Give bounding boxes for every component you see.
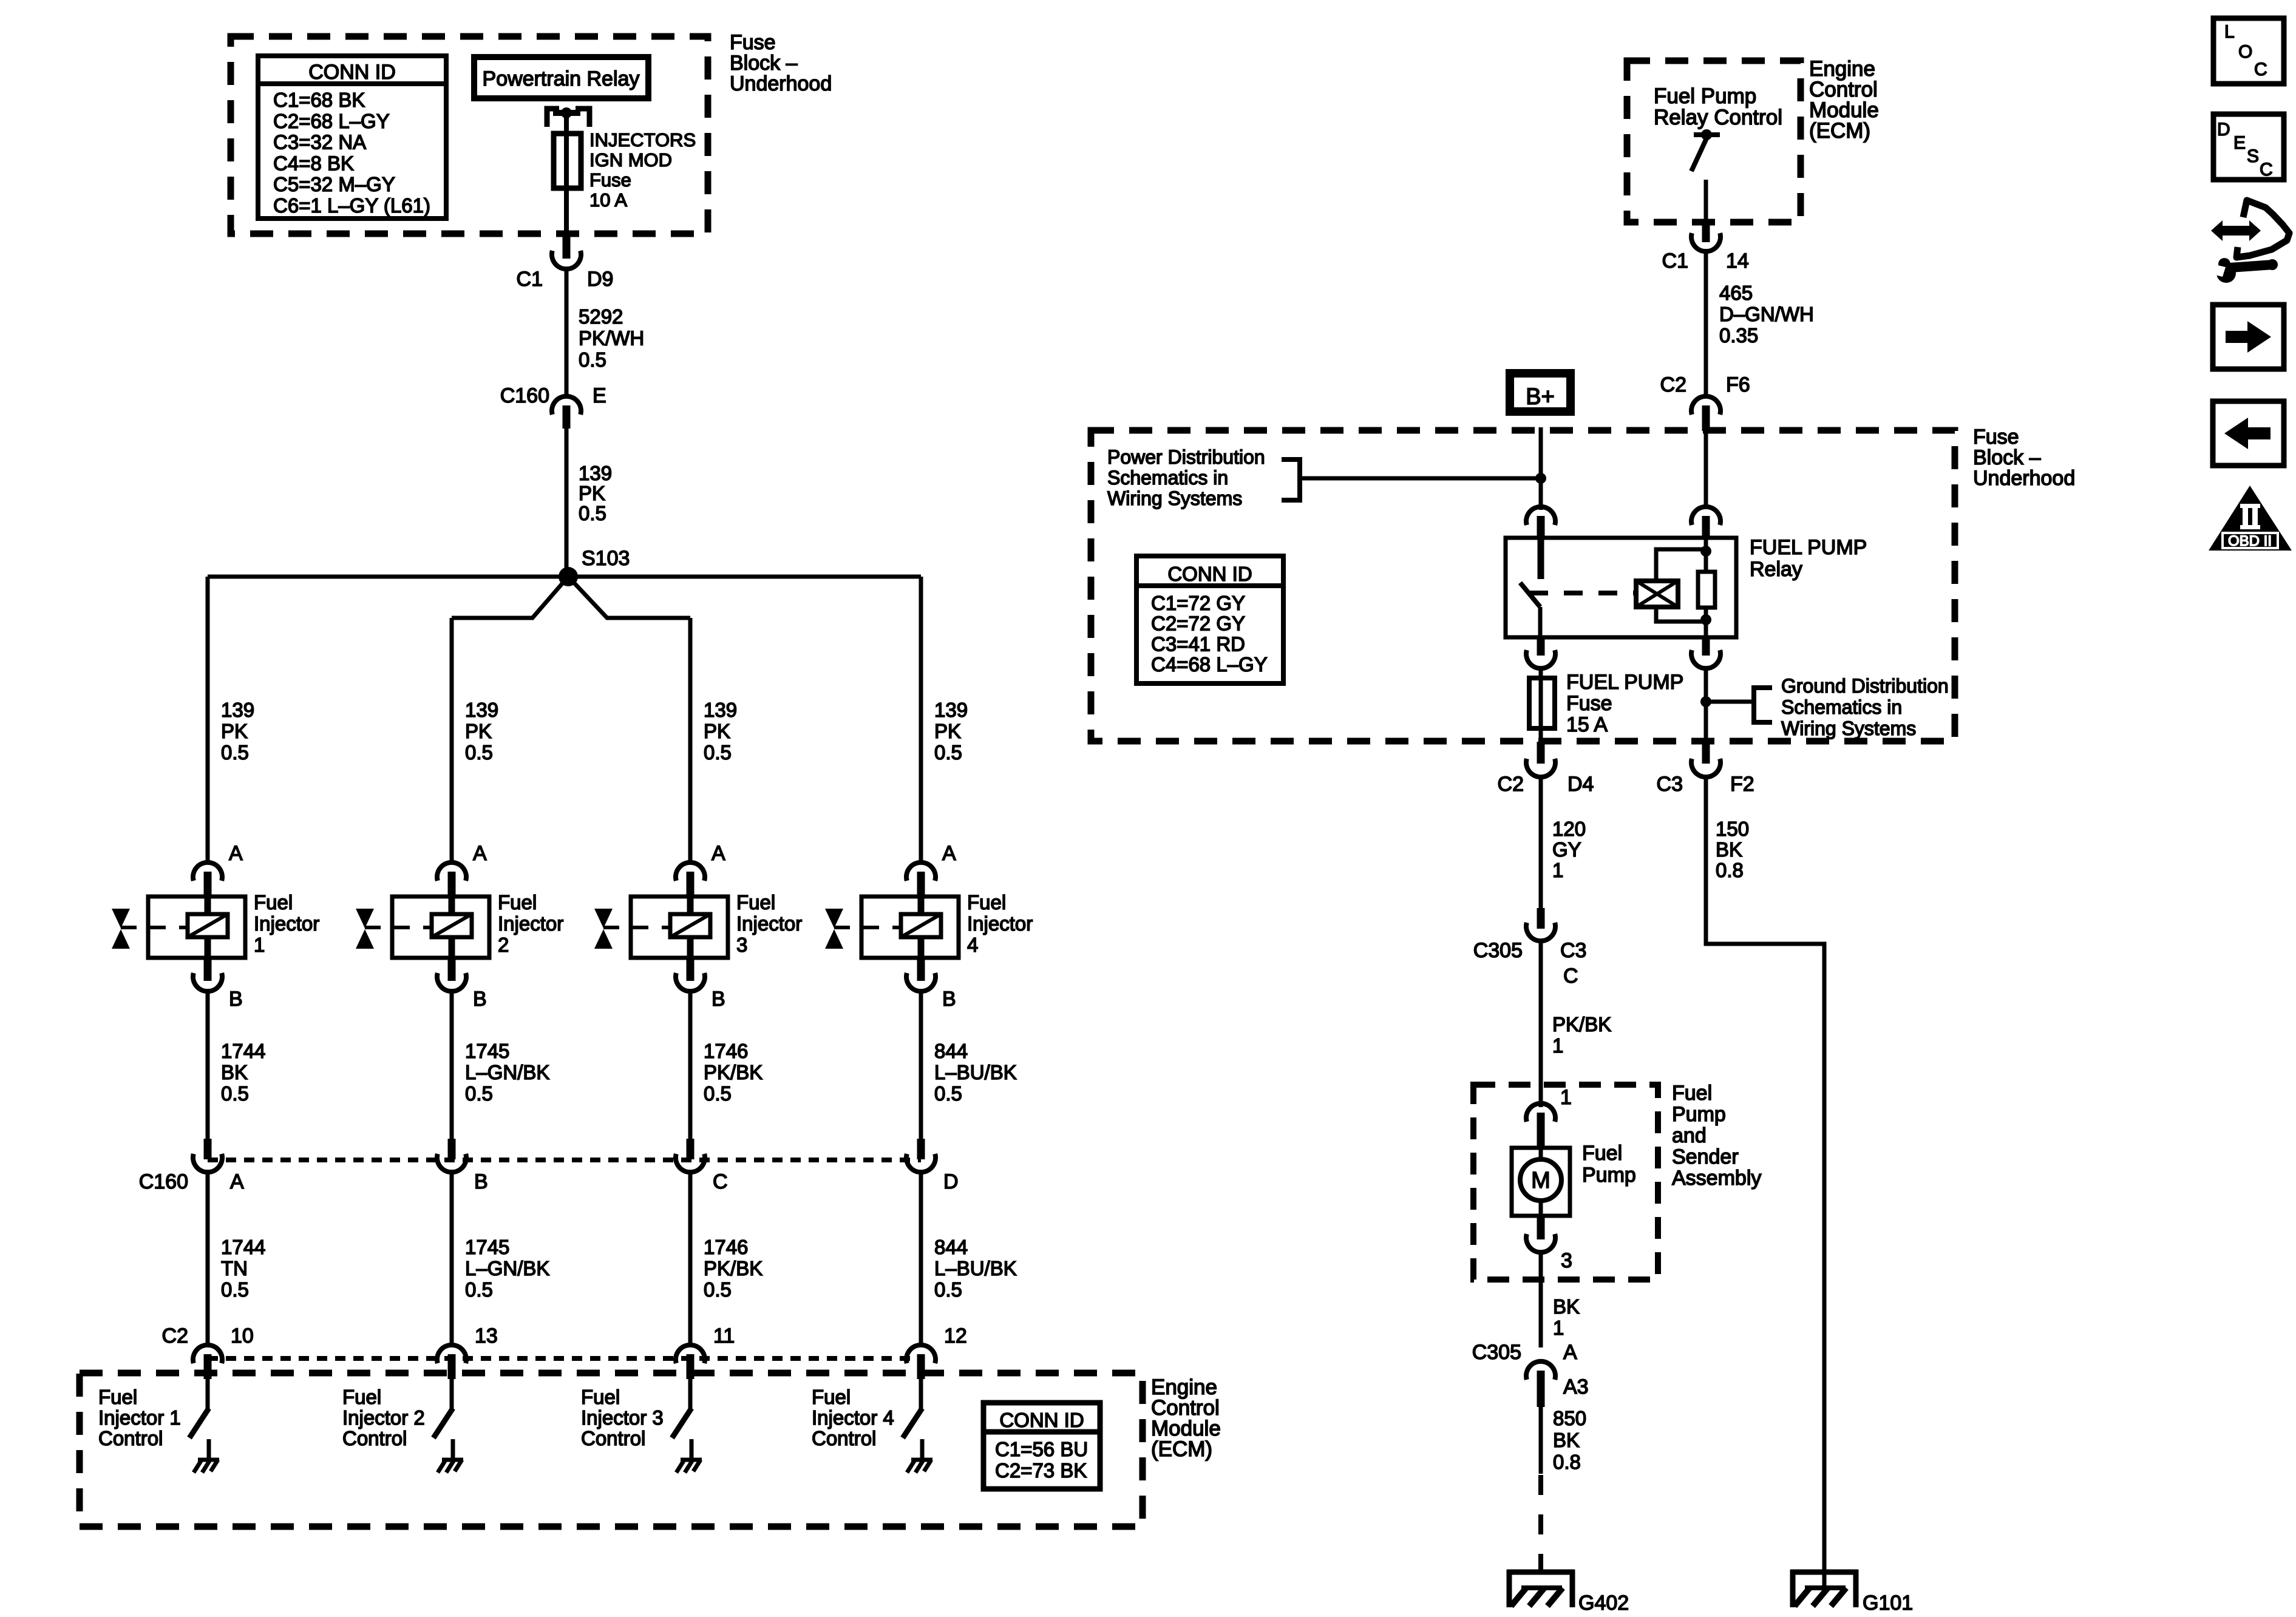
svg-text:Power Distribution: Power Distribution: [1107, 446, 1265, 468]
svg-text:Relay Control: Relay Control: [1654, 106, 1782, 129]
svg-text:C: C: [2254, 59, 2267, 80]
svg-text:B: B: [712, 988, 725, 1011]
connector C1 / D9: [563, 235, 571, 259]
connector pin B of injector 4: [917, 958, 925, 981]
connector C160 pin A: [204, 1139, 212, 1159]
svg-text:Fuel: Fuel: [1582, 1142, 1622, 1165]
svg-text:Fuel: Fuel: [98, 1386, 137, 1408]
svg-text:C2: C2: [1660, 373, 1686, 396]
svg-text:Injector: Injector: [254, 912, 319, 935]
svg-text:C1=68 BK: C1=68 BK: [273, 89, 365, 111]
fuel pump and sender assembly dashed box: [1473, 1085, 1658, 1280]
svg-text:PK/BK: PK/BK: [1552, 1013, 1611, 1036]
svg-text:BK: BK: [221, 1061, 248, 1083]
wire 1746 PK/BK to C160: [688, 992, 693, 1140]
connector row C160 dotted line: [208, 1158, 921, 1162]
svg-text:G101: G101: [1863, 1592, 1913, 1615]
svg-text:C4=68 L–GY: C4=68 L–GY: [1151, 653, 1268, 676]
wire 1746 PK/BK to ECM: [688, 1173, 693, 1346]
svg-text:C3: C3: [1657, 773, 1683, 796]
connector pin 3 of fuel pump: [1537, 1216, 1545, 1239]
svg-text:Fuse: Fuse: [1566, 692, 1612, 715]
ECM internal ground 4: [920, 1439, 925, 1460]
fuel injector 2 control switch: [433, 1408, 453, 1438]
connector pin B of injector 2: [448, 958, 456, 981]
svg-text:Wiring Systems: Wiring Systems: [1781, 717, 1916, 739]
fuel injector 3: [631, 897, 728, 958]
wire: power distribution to B+ node: [1300, 476, 1541, 481]
fuel injector 4 control switch: [903, 1408, 922, 1438]
svg-text:0.8: 0.8: [1553, 1451, 1581, 1473]
svg-text:Fuel: Fuel: [736, 891, 775, 914]
svg-text:IGN MOD: IGN MOD: [589, 149, 672, 171]
svg-text:L–BU/BK: L–BU/BK: [934, 1257, 1017, 1280]
svg-text:C2=73 BK: C2=73 BK: [995, 1459, 1087, 1482]
svg-text:C: C: [2260, 160, 2273, 180]
svg-text:Wiring Systems: Wiring Systems: [1107, 487, 1242, 509]
svg-text:1744: 1744: [221, 1040, 265, 1062]
svg-text:S103: S103: [582, 547, 630, 570]
svg-text:A: A: [712, 842, 725, 865]
wire into ECM driver 2: [450, 1379, 454, 1409]
svg-text:139: 139: [221, 699, 254, 721]
wire: feed 139 PK 0.5 to injector 4: [919, 577, 923, 862]
svg-text:Control: Control: [581, 1427, 645, 1449]
svg-text:FUEL PUMP: FUEL PUMP: [1750, 536, 1867, 559]
wire BK 1: [1539, 1253, 1543, 1347]
svg-text:1746: 1746: [704, 1236, 748, 1258]
svg-text:D: D: [943, 1170, 959, 1193]
svg-text:Underhood: Underhood: [730, 72, 832, 95]
svg-text:1746: 1746: [704, 1040, 748, 1062]
svg-text:BK: BK: [1553, 1295, 1580, 1318]
svg-text:5292: 5292: [579, 305, 623, 328]
svg-text:C2: C2: [162, 1324, 188, 1347]
power distribution bracket: [1282, 459, 1300, 500]
svg-text:D9: D9: [587, 268, 613, 291]
relay coil: [1636, 581, 1678, 607]
FUEL PUMP relay box: [1506, 538, 1736, 637]
svg-text:D–GN/WH: D–GN/WH: [1719, 303, 1814, 325]
svg-text:2: 2: [498, 934, 509, 956]
wire: feed 139 PK 0.5 to injector 3: [688, 618, 693, 862]
svg-text:TN: TN: [221, 1257, 248, 1280]
wire 844 L–BU/BK to C160: [919, 992, 923, 1140]
svg-text:L–BU/BK: L–BU/BK: [934, 1061, 1017, 1083]
svg-text:and: and: [1672, 1124, 1707, 1147]
svg-text:C1=56 BU: C1=56 BU: [995, 1438, 1088, 1460]
wire 139 PK 0.5: [565, 429, 569, 577]
fuel injector 4: [861, 897, 959, 958]
svg-text:Pump: Pump: [1672, 1103, 1726, 1126]
wire down right: [1704, 669, 1708, 753]
icon LOC: [2213, 18, 2284, 84]
svg-text:4: 4: [967, 934, 978, 956]
svg-text:1: 1: [1553, 1317, 1564, 1339]
ECM (top right) dashed box: [1627, 61, 1801, 222]
svg-text:10 A: 10 A: [589, 189, 627, 211]
svg-text:12: 12: [944, 1324, 967, 1347]
wire 1745 L–GN/BK to C160: [450, 992, 454, 1140]
wire 465 D-GN/WH 0.35: [1704, 252, 1708, 397]
svg-text:C: C: [713, 1170, 728, 1193]
svg-text:PK/BK: PK/BK: [704, 1257, 763, 1280]
svg-text:0.5: 0.5: [704, 1278, 732, 1301]
wire into ECM driver 4: [919, 1379, 923, 1409]
connector C160 pin D: [917, 1139, 925, 1159]
svg-text:1: 1: [1552, 859, 1563, 881]
wire 1744 TN to ECM: [206, 1173, 210, 1346]
svg-text:CONN ID: CONN ID: [308, 61, 396, 84]
svg-text:PK: PK: [579, 482, 605, 504]
svg-text:139: 139: [579, 462, 612, 484]
svg-text:C2: C2: [1498, 773, 1524, 796]
connector pin B of injector 1: [204, 958, 212, 981]
icon OBD II: [2209, 486, 2292, 551]
svg-text:Relay: Relay: [1750, 558, 1802, 581]
wire: feed 139 PK 0.5 to injector 2: [450, 618, 454, 862]
relay resistor: [1698, 572, 1715, 608]
fuel injector 2: [392, 897, 489, 958]
svg-text:Fuel: Fuel: [254, 891, 293, 914]
svg-text:Injector: Injector: [967, 912, 1033, 935]
svg-text:0.5: 0.5: [465, 1278, 493, 1301]
svg-text:Underhood: Underhood: [1973, 467, 2075, 490]
svg-text:Ground Distribution: Ground Distribution: [1781, 675, 1949, 697]
svg-text:Injector 4: Injector 4: [812, 1406, 894, 1429]
svg-text:C305: C305: [1473, 939, 1523, 962]
fuel injector 1: [148, 897, 245, 958]
svg-text:S: S: [2247, 146, 2259, 166]
fuel pump relay control driver: [1694, 132, 1720, 137]
CONN ID table (fuse block): [258, 56, 446, 219]
wire into ECM driver 3: [688, 1379, 693, 1409]
svg-text:E: E: [2233, 133, 2246, 153]
svg-text:C1=72 GY: C1=72 GY: [1151, 592, 1245, 614]
icon DESC: [2213, 114, 2284, 180]
fuse block underhood (top left) dashed box: [231, 36, 708, 234]
ECM (bottom) dashed box: [80, 1373, 1143, 1527]
connector into relay (right): [1704, 431, 1708, 508]
svg-text:PK/WH: PK/WH: [579, 327, 644, 350]
svg-text:BK: BK: [1553, 1429, 1580, 1451]
svg-text:844: 844: [934, 1236, 968, 1258]
svg-text:A: A: [230, 1170, 244, 1193]
junction node: [1535, 473, 1546, 484]
wire: B+ down to relay: [1539, 427, 1543, 510]
fuse block underhood (right) dashed box: [1091, 430, 1955, 741]
svg-text:A: A: [942, 842, 956, 865]
svg-text:844: 844: [934, 1040, 968, 1062]
svg-text:0.5: 0.5: [579, 348, 606, 371]
svg-text:A: A: [229, 842, 243, 865]
svg-text:INJECTORS: INJECTORS: [589, 129, 696, 151]
svg-text:0.5: 0.5: [934, 741, 962, 764]
svg-text:Fuse: Fuse: [589, 169, 631, 191]
svg-text:GY: GY: [1552, 838, 1581, 861]
svg-text:B: B: [473, 988, 487, 1011]
svg-text:0.5: 0.5: [704, 1082, 732, 1105]
svg-text:BK: BK: [1716, 838, 1742, 861]
B+ terminal box: [1510, 373, 1571, 412]
connector pin B of injector 3: [687, 958, 695, 981]
svg-text:G402: G402: [1578, 1592, 1629, 1615]
svg-text:1745: 1745: [465, 1040, 509, 1062]
svg-text:Injector 2: Injector 2: [342, 1406, 425, 1429]
svg-text:L–GN/BK: L–GN/BK: [465, 1061, 549, 1083]
svg-text:C6=1 L–GY (L61): C6=1 L–GY (L61): [273, 194, 430, 217]
ECM internal ground 3: [690, 1439, 694, 1460]
svg-text:150: 150: [1716, 818, 1749, 840]
wire 850 BK 0.8: [1539, 1407, 1543, 1474]
ground distribution bracket: [1754, 688, 1772, 722]
connector C305 / C3: [1537, 908, 1545, 929]
svg-text:M: M: [1531, 1168, 1550, 1193]
svg-text:(ECM): (ECM): [1151, 1437, 1212, 1461]
svg-text:PK/BK: PK/BK: [704, 1061, 763, 1083]
svg-text:C1: C1: [517, 268, 543, 291]
relay switch: [1538, 538, 1544, 579]
svg-text:B: B: [229, 988, 243, 1011]
svg-text:CONN ID: CONN ID: [1167, 563, 1252, 585]
svg-text:Assembly: Assembly: [1672, 1167, 1761, 1190]
relay coil link dashed: [1529, 591, 1636, 595]
svg-text:A: A: [473, 842, 487, 865]
wire 1745 L–GN/BK to ECM: [450, 1173, 454, 1346]
svg-text:L: L: [2224, 22, 2235, 42]
icon diagnostic tool: [2211, 220, 2261, 241]
svg-text:Control: Control: [98, 1427, 163, 1449]
wire PK/BK 1: [1539, 941, 1543, 1107]
svg-text:11: 11: [713, 1324, 735, 1347]
svg-text:F2: F2: [1730, 773, 1754, 796]
svg-text:0.5: 0.5: [934, 1278, 962, 1301]
svg-text:Control: Control: [812, 1427, 876, 1449]
ECM CONN ID table: [983, 1403, 1100, 1489]
connector into relay (left): [1526, 507, 1555, 525]
svg-text:0.5: 0.5: [579, 502, 606, 524]
svg-text:PK: PK: [704, 720, 730, 742]
svg-text:C3=41 RD: C3=41 RD: [1151, 632, 1245, 655]
svg-text:C160: C160: [500, 384, 549, 407]
svg-text:Injector: Injector: [498, 912, 563, 935]
wire into ECM driver 1: [206, 1379, 210, 1409]
wire 120 GY 1: [1539, 778, 1543, 910]
svg-text:Fuel: Fuel: [967, 891, 1006, 914]
svg-text:Injector 3: Injector 3: [581, 1406, 664, 1429]
svg-text:Schematics in: Schematics in: [1781, 696, 1902, 718]
svg-text:0.35: 0.35: [1719, 324, 1758, 347]
svg-text:1: 1: [254, 934, 265, 956]
svg-text:1: 1: [1552, 1034, 1563, 1057]
svg-text:C305: C305: [1472, 1341, 1521, 1364]
svg-text:Fuel: Fuel: [1672, 1082, 1712, 1105]
svg-text:Block –: Block –: [1973, 446, 2041, 469]
svg-text:0.5: 0.5: [704, 741, 732, 764]
svg-text:A3: A3: [1563, 1375, 1589, 1398]
FUEL PUMP fuse 15 A: [1529, 678, 1555, 728]
icon arrow right: [2213, 305, 2284, 369]
svg-text:CONN ID: CONN ID: [999, 1409, 1084, 1431]
Powertrain Relay box: [474, 57, 648, 98]
svg-text:C: C: [1563, 964, 1578, 988]
fuel injector 1 control switch: [189, 1408, 209, 1438]
fuse INJECTORS IGN MOD 10 A: [554, 134, 581, 188]
svg-text:A: A: [1563, 1341, 1577, 1364]
CONN ID table (right fuse block): [1136, 556, 1283, 683]
svg-text:Powertrain Relay: Powertrain Relay: [483, 67, 640, 90]
svg-text:C1: C1: [1662, 249, 1688, 273]
svg-text:Control: Control: [342, 1427, 407, 1449]
svg-text:Pump: Pump: [1582, 1164, 1636, 1187]
svg-text:0.5: 0.5: [221, 1082, 249, 1105]
wire: coil loop bottom: [1656, 607, 1706, 622]
svg-text:Fuel: Fuel: [581, 1386, 620, 1408]
svg-text:0.5: 0.5: [934, 1082, 962, 1105]
svg-text:D: D: [2217, 120, 2230, 140]
svg-text:C3=32 NA: C3=32 NA: [273, 131, 366, 154]
svg-text:15 A: 15 A: [1566, 713, 1608, 736]
svg-text:D4: D4: [1567, 773, 1594, 796]
svg-text:139: 139: [465, 699, 498, 721]
connector C1 / 14: [1702, 225, 1710, 242]
wire: feed 139 PK 0.5 to injector 1: [206, 577, 210, 862]
svg-text:850: 850: [1553, 1407, 1586, 1429]
connector C3 / F2: [1702, 742, 1710, 764]
svg-text:Sender: Sender: [1672, 1145, 1739, 1168]
svg-text:0.5: 0.5: [465, 1082, 493, 1105]
wire 1744 BK to C160: [206, 992, 210, 1140]
svg-text:Fuse: Fuse: [730, 31, 776, 54]
svg-text:O: O: [2238, 42, 2252, 62]
svg-text:C2=68 L–GY: C2=68 L–GY: [273, 110, 390, 132]
svg-text:C5=32 M–GY: C5=32 M–GY: [273, 173, 395, 195]
svg-text:C4=8 BK: C4=8 BK: [273, 152, 354, 174]
svg-text:PK: PK: [934, 720, 961, 742]
connector C160 pin C: [687, 1139, 695, 1159]
svg-text:E: E: [593, 384, 606, 407]
svg-text:C3: C3: [1560, 939, 1586, 962]
connector row C2 dotted line: [208, 1356, 921, 1361]
svg-text:B: B: [474, 1170, 488, 1193]
svg-text:120: 120: [1552, 818, 1586, 840]
svg-text:14: 14: [1726, 249, 1749, 273]
ground G402: [1507, 1570, 1575, 1575]
svg-text:0.8: 0.8: [1716, 859, 1744, 881]
connector C2 / D4: [1537, 742, 1545, 764]
svg-text:(ECM): (ECM): [1809, 119, 1870, 143]
svg-text:0.5: 0.5: [465, 741, 493, 764]
wire to fuse: [1539, 669, 1543, 753]
svg-text:Block –: Block –: [730, 52, 798, 75]
svg-text:3: 3: [1561, 1249, 1572, 1272]
connector below relay (right): [1702, 637, 1710, 656]
wire dashed to G402: [1538, 1475, 1543, 1590]
svg-text:Fuel: Fuel: [498, 891, 537, 914]
svg-text:13: 13: [475, 1324, 498, 1347]
svg-text:FUEL PUMP: FUEL PUMP: [1566, 671, 1683, 694]
svg-text:Fuel: Fuel: [342, 1386, 381, 1408]
svg-text:Fuel: Fuel: [812, 1386, 851, 1408]
powertrain relay contact symbol: [547, 109, 559, 127]
fuel injector 3 control switch: [672, 1408, 691, 1438]
fuel pump motor: [1512, 1148, 1570, 1216]
svg-text:PK: PK: [221, 720, 248, 742]
svg-text:B+: B+: [1526, 384, 1555, 410]
svg-text:465: 465: [1719, 282, 1753, 304]
svg-text:139: 139: [704, 699, 737, 721]
connector C160 pin B: [448, 1139, 456, 1159]
connector below relay (left): [1537, 637, 1545, 656]
svg-text:B: B: [942, 988, 956, 1011]
wire: S103 bus horizontal: [208, 575, 921, 579]
svg-text:C160: C160: [139, 1170, 188, 1193]
svg-text:0.5: 0.5: [221, 741, 249, 764]
wire: S103 branch to injector 2: [452, 577, 568, 618]
svg-text:PK: PK: [465, 720, 492, 742]
svg-text:10: 10: [231, 1324, 254, 1347]
wire: relay to fuse: [564, 113, 569, 236]
svg-text:Schematics in: Schematics in: [1107, 467, 1228, 489]
svg-text:139: 139: [934, 699, 968, 721]
svg-text:Injector 1: Injector 1: [98, 1406, 181, 1429]
svg-text:OBD II: OBD II: [2228, 533, 2272, 549]
wire 844 L–BU/BK to ECM: [919, 1173, 923, 1346]
wire elbow to G101: [1706, 778, 1824, 1589]
svg-text:Injector: Injector: [736, 912, 802, 935]
wire 5292 PK/WH 0.5: [565, 268, 569, 398]
ECM internal ground 2: [451, 1439, 455, 1460]
svg-text:3: 3: [736, 934, 747, 956]
svg-text:1745: 1745: [465, 1236, 509, 1258]
svg-text:L–GN/BK: L–GN/BK: [465, 1257, 549, 1280]
icon arrow left: [2213, 401, 2284, 466]
svg-text:C2=72 GY: C2=72 GY: [1151, 612, 1245, 635]
svg-text:Fuse: Fuse: [1973, 425, 2019, 449]
wire: coil loop top: [1656, 549, 1706, 581]
ECM internal ground 1: [207, 1439, 211, 1460]
svg-text:Fuel Pump: Fuel Pump: [1654, 84, 1756, 108]
svg-text:0.5: 0.5: [221, 1278, 249, 1301]
svg-text:1: 1: [1560, 1086, 1572, 1109]
svg-text:F6: F6: [1726, 373, 1750, 396]
ground G101: [1790, 1570, 1858, 1575]
junction to ground distribution: [1700, 696, 1711, 707]
svg-text:1744: 1744: [221, 1236, 265, 1258]
wire: S103 branch to injector 3: [568, 577, 690, 618]
